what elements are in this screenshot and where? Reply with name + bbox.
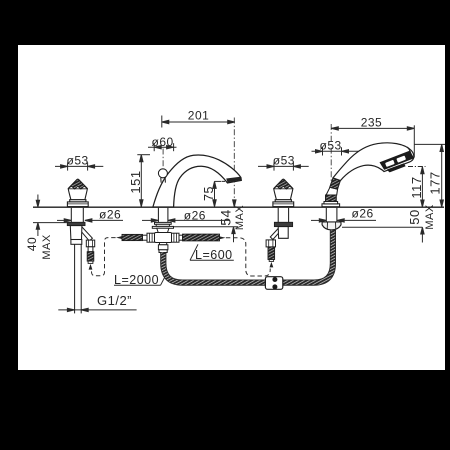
svg-text:117: 117	[409, 176, 424, 198]
deck top line	[33, 206, 444, 208]
hand shower body	[333, 143, 414, 181]
right valve body	[278, 227, 288, 239]
svg-text:235: 235	[361, 116, 383, 130]
dimension ø60	[148, 143, 177, 151]
left valve hose fitting	[86, 240, 94, 252]
svg-text:L=600: L=600	[195, 248, 233, 262]
dimension 50 MAX	[342, 227, 424, 242]
dimension ø53 hand shower	[312, 147, 368, 155]
svg-text:ø26: ø26	[184, 209, 206, 223]
svg-text:MAX: MAX	[424, 204, 436, 230]
left route arrow	[89, 264, 93, 270]
centerline spout outlet	[233, 118, 235, 207]
left handle knob	[67, 179, 88, 206]
white drawing panel	[18, 45, 445, 370]
hand shower base plates	[322, 202, 340, 207]
svg-text:ø60: ø60	[152, 135, 174, 149]
svg-text:ø53: ø53	[273, 154, 295, 168]
centerline spout base	[162, 149, 164, 207]
svg-text:40: 40	[25, 237, 39, 251]
dimension 75	[213, 181, 229, 206]
right valve nut	[274, 222, 292, 226]
svg-text:50: 50	[407, 209, 422, 224]
dimension 177	[415, 144, 446, 207]
left valve shank	[71, 208, 83, 223]
svg-text:MAX: MAX	[234, 205, 246, 231]
left dashed route	[92, 238, 116, 276]
svg-text:G1/2”: G1/2”	[97, 293, 132, 308]
right valve shank	[278, 208, 288, 223]
right valve hose fitting	[266, 240, 275, 247]
svg-text:ø26: ø26	[99, 207, 121, 221]
dimension 117	[408, 167, 426, 208]
dimension 201	[162, 116, 235, 128]
right valve outlet elbow	[270, 227, 282, 240]
shower shank below deck	[326, 208, 337, 222]
svg-text:151: 151	[128, 170, 143, 193]
svg-text:MAX: MAX	[41, 234, 53, 260]
deck bottom line segments with ø26 arrows	[57, 219, 376, 222]
dimension ø53 right handle	[258, 162, 309, 170]
dimension G1/2	[58, 308, 136, 311]
spout shank	[158, 208, 168, 223]
svg-text:ø26: ø26	[352, 206, 374, 220]
spout diverter ball	[158, 169, 167, 183]
svg-text:201: 201	[188, 109, 210, 123]
dimension 40 MAX	[33, 195, 67, 237]
dimension 151	[137, 155, 150, 207]
svg-text:177: 177	[428, 171, 443, 194]
hand shower grip band	[330, 178, 341, 189]
shower shank nut	[322, 222, 341, 230]
tee stack under spout	[143, 222, 183, 252]
hand shower collar	[326, 195, 337, 202]
dimension ø53 left handle	[55, 162, 103, 170]
svg-text:54: 54	[218, 209, 234, 226]
left valve tailpipes	[75, 244, 82, 313]
centerline hand shower	[330, 124, 332, 207]
left supply braided hose	[122, 234, 143, 240]
dimension 54 MAX	[174, 200, 239, 242]
hand shower grip	[326, 187, 338, 195]
spout body	[153, 155, 241, 207]
left valve nut	[67, 222, 85, 225]
left hose end arrow	[116, 236, 123, 239]
hose connector block	[265, 277, 282, 290]
left valve outlet elbow	[80, 227, 93, 241]
svg-text:ø53: ø53	[67, 154, 89, 168]
right dashed route	[226, 238, 270, 276]
left valve braided tail	[87, 252, 94, 261]
shower hose (braided, L=2000)	[163, 230, 333, 283]
right supply braided hose	[183, 234, 220, 241]
svg-text:L=2000: L=2000	[114, 273, 159, 287]
dimension 235	[331, 125, 414, 157]
right valve braided tail	[268, 247, 275, 260]
left valve body	[70, 226, 82, 240]
right handle knob	[273, 179, 294, 206]
right route arrow	[270, 262, 274, 268]
svg-text:75: 75	[202, 186, 216, 201]
left valve collar	[71, 240, 82, 245]
right hose end arrow	[219, 236, 226, 239]
hand shower spray face	[380, 151, 415, 170]
spout outlet aerator	[226, 177, 241, 183]
svg-text:ø53: ø53	[320, 139, 342, 153]
